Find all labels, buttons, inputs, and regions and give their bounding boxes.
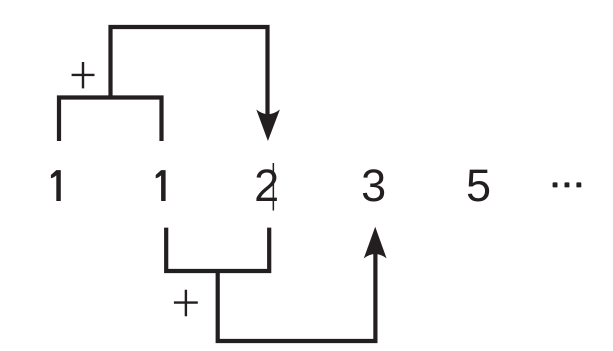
term 1 (second) — [156, 170, 166, 201]
arrowhead pointing up at term 3 — [364, 227, 387, 259]
ellipsis dot 1 — [553, 182, 558, 187]
arrowhead pointing down at term 2 — [256, 110, 280, 142]
plus sign (bottom addition) — [174, 290, 198, 317]
wire: bottom route from brace down, right, and up to term 3 — [218, 252, 376, 341]
svg-text:3: 3 — [361, 160, 386, 211]
wire: top route from brace up, right, and down to term 2 — [111, 27, 268, 116]
svg-text:5: 5 — [466, 160, 491, 211]
cursor caret line over term 2 — [273, 163, 275, 211]
plus sign (top addition) — [72, 62, 95, 88]
term 1 (first) — [51, 170, 61, 201]
svg-text:2: 2 — [254, 160, 279, 211]
wire: bottom brace under terms 1 and 2 — [166, 228, 269, 271]
ellipsis dot 2 — [565, 182, 570, 187]
ellipsis dot 3 — [576, 182, 581, 187]
wire: top brace over terms 1 and 1 — [59, 98, 162, 142]
